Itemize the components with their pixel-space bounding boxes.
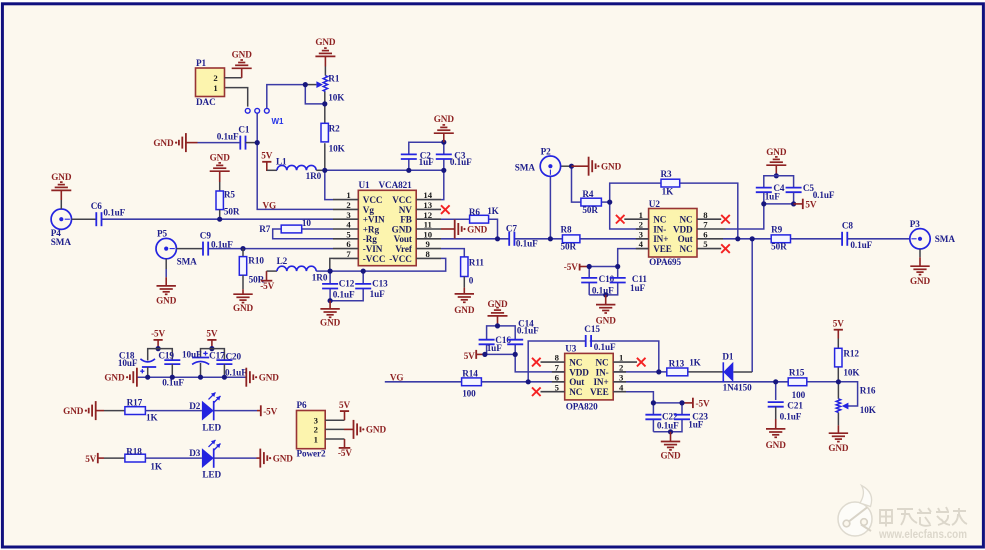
ground below C21 [766,428,785,430]
wire -5V stem to L2 [267,270,278,272]
svg-text:4: 4 [639,239,644,249]
wire C10 top [588,267,590,278]
resistor R13 [667,368,688,376]
svg-text:5: 5 [555,382,560,392]
junction C21 line [773,379,778,384]
svg-text:GND: GND [233,303,254,313]
svg-text:5V: 5V [833,319,844,329]
capacitor C22 [645,414,661,416]
svg-text:R17: R17 [127,398,143,408]
resistor R5 [216,191,223,210]
U1 pin 6 stub [333,248,358,250]
svg-text:VDD: VDD [569,367,589,377]
wire P1 pin1 to W1 left circle [225,88,248,107]
wire C13 bottom loop [330,289,363,301]
svg-text:-5V: -5V [564,262,578,272]
svg-text:GND: GND [828,443,849,453]
wire R7 right to U1 pin4 [302,228,333,230]
svg-text:R12: R12 [843,349,859,359]
junction P2 gnd node [569,164,574,169]
junction R1 bottom [322,101,327,106]
P4 stub [72,218,97,220]
svg-text:L1: L1 [276,157,287,167]
P5 down wire [165,259,167,269]
svg-text:100: 100 [792,390,806,400]
wire C23 bottom loop [653,419,682,432]
svg-text:VEE: VEE [653,244,672,254]
C1 gnd stub [186,142,198,144]
wire R1 bottom to node [324,92,326,104]
resistor R3 [661,179,680,187]
wire U3 pin2 to R13 [613,371,667,373]
svg-text:2: 2 [639,220,643,230]
junction C22 gnd [668,429,673,434]
ground below C12 C13 [329,301,331,309]
U1 pin 5 stub [333,238,358,240]
wire R1 wiper arrow tail [305,84,316,86]
svg-text:0.1uF: 0.1uF [517,326,539,336]
potentiometer R1 [323,76,327,92]
svg-text:1uF: 1uF [765,191,781,201]
ground above C14 C16 [488,315,508,317]
U2 pin1 NC X [624,218,648,220]
ground above R5 [210,170,230,172]
svg-text:-5V: -5V [263,407,277,417]
ground at U1 pin11 [454,220,456,239]
wire out line down to D1 anode [751,239,753,372]
resistor R15 [788,378,807,386]
jumper W1 [245,108,250,113]
junction R14 out node [526,379,531,384]
U3 pin1 NC X [613,361,637,363]
svg-text:C12: C12 [339,279,355,289]
svg-text:GND: GND [232,49,253,59]
svg-text:4: 4 [619,382,624,392]
gnd rail under cluster [137,376,246,378]
svg-text:GND: GND [104,373,125,383]
svg-text:C7: C7 [506,224,518,234]
wire 5V rail L1 junction to C2 C3 bottoms [325,169,444,171]
wire C23 top [681,403,683,415]
svg-text:GND: GND [315,37,336,47]
wire R7 left loop to U1 pin5 [273,229,333,239]
C20 bottom [223,364,225,377]
svg-text:R5: R5 [224,189,236,199]
svg-text:VCC: VCC [363,195,383,205]
junction R6 vout [495,236,500,241]
U1 pin 10 stub [416,238,441,240]
svg-text:R9: R9 [771,225,783,235]
svg-text:SMA: SMA [935,234,956,244]
junction C23 top [679,400,684,405]
wire R1 wiper loop to R2 top node [305,85,325,104]
ground below C10 C11 [605,295,607,305]
C18 C19 top rail [148,349,173,361]
wire U2 pin6 out to R9 [723,238,771,240]
R1 gnd stem [324,56,326,66]
resistor R12 [835,348,842,367]
svg-text:1: 1 [213,83,217,93]
wire U3 pin3 line to R15 [613,381,788,383]
svg-text:P5: P5 [157,228,168,238]
svg-text:-5V: -5V [338,448,352,458]
wire R12 bottom to node [837,367,839,382]
junction R3 out [735,236,740,241]
svg-text:10: 10 [423,229,432,239]
wire R4 to R3 node [601,201,609,203]
junction C11 top [615,264,620,269]
svg-text:P3: P3 [910,219,921,229]
svg-text:10K: 10K [843,367,860,377]
svg-text:VDD: VDD [673,224,693,234]
capacitor C14 [507,339,523,341]
svg-text:R2: R2 [329,124,341,134]
svg-text:-Rg: -Rg [363,234,377,244]
svg-text:SMA: SMA [51,237,72,247]
D2 to -5V wire [214,410,257,412]
svg-text:W1: W1 [272,117,285,126]
junction R12 R16 node [836,379,841,384]
svg-text:U2: U2 [649,199,661,209]
capacitor C12 [322,283,338,285]
power -5V at C18 C19 [154,339,163,341]
junction C3 top gnd [441,140,446,145]
junction out drop [750,236,755,241]
svg-text:GND: GND [51,172,72,182]
power -5V at P6 [344,439,346,448]
wire P2 stub to ground node [561,165,572,167]
capacitor C7 [508,232,510,246]
svg-text:R4: R4 [582,189,594,199]
svg-text:Vref: Vref [395,244,413,254]
U3 pin3 stub [613,381,626,383]
svg-text:0.1uF: 0.1uF [516,239,538,249]
svg-text:1: 1 [314,434,318,444]
svg-text:C19: C19 [158,351,174,361]
svg-text:3: 3 [346,210,351,220]
junction C4 bottom [761,201,766,206]
svg-text:C21: C21 [787,401,803,411]
wire C22 top [652,403,654,415]
svg-text:VG: VG [263,200,277,210]
svg-text:50R: 50R [224,207,240,217]
ground left of rail [136,368,138,387]
P3 down wire [919,249,921,257]
svg-text:5: 5 [703,239,708,249]
watermark chinese glyph strokes [880,507,967,527]
C21 bottom [775,407,777,419]
svg-text:OPA820: OPA820 [566,402,598,412]
svg-text:C1: C1 [238,125,250,135]
svg-text:GND: GND [320,318,341,328]
svg-text:GND: GND [273,453,294,463]
wire node to R2 top [324,104,326,123]
wire U3 pin4 VEE to C22 rail [613,392,653,403]
U1 pin 2 stub [333,208,358,210]
svg-text:+VIN: +VIN [363,215,385,225]
svg-text:0: 0 [469,275,474,285]
svg-text:R15: R15 [789,368,805,378]
svg-text:R8: R8 [561,225,573,235]
C4 gnd stem [775,165,777,176]
ground left of C1 [185,133,187,152]
wire C14 C16 top rail [487,326,516,339]
svg-text:1uF: 1uF [630,283,646,293]
junction C3 bottom [441,168,446,173]
svg-text:C20: C20 [226,351,242,361]
ground right of rail [245,368,247,387]
capacitor C16 [479,339,495,341]
resistor R10 [242,249,244,257]
wire C2 top loop [409,142,444,154]
wire C12 bottom to GND junction [329,289,331,301]
svg-text:50R: 50R [561,241,577,251]
capacitor C17 polarized [192,357,209,359]
LED D3 [202,448,214,468]
capacitor C20 [216,359,232,361]
junction C22 top [651,400,656,405]
P6 pin3 stub [325,419,344,421]
svg-text:-VIN: -VIN [363,244,383,254]
R11 bottom [463,277,465,288]
connector P4 SMA [51,209,71,229]
U1 pin 4 stub [333,228,358,230]
wire C21 tap [775,382,777,400]
potentiometer R16 [836,399,840,413]
svg-text:8: 8 [703,210,708,220]
capacitor C11 [610,277,626,279]
svg-text:5: 5 [346,229,351,239]
svg-text:7: 7 [346,249,351,259]
resistor R8 [562,235,580,243]
svg-text:0.1uF: 0.1uF [450,157,472,167]
wire R16 bottom [837,412,839,425]
wire C22 C23 top rail [653,402,682,404]
wire C12 top [329,271,331,284]
U1 pin 7 stub [333,257,358,259]
U3 pin8 NC X [541,361,565,363]
resistor R6 [470,215,489,223]
svg-text:NC: NC [680,244,693,254]
junction C13 rail [361,269,366,274]
junction C5 bottom [791,201,796,206]
svg-text:IN+: IN+ [593,377,608,387]
wire C11 top [617,267,619,278]
svg-text:5V: 5V [261,151,272,161]
svg-text:NC: NC [653,215,666,225]
U2 pin8 NC X [697,218,721,220]
R17 left wire [96,410,104,412]
wire P2 center down to Vout line [549,176,551,238]
svg-text:GND: GND [454,305,475,315]
resistor R9 [771,235,790,243]
ground below R10 [233,293,252,295]
svg-text:P1: P1 [196,58,207,68]
wire C15 left loop from out node [528,341,586,382]
svg-text:L2: L2 [277,256,288,266]
capacitor C13 [355,283,371,285]
svg-text:14: 14 [423,190,432,200]
capacitor C19 [164,359,180,361]
svg-text:VCA821: VCA821 [379,180,413,190]
ground above C2 C3 [443,133,445,142]
junction L2 rail [328,269,333,274]
capacitor C21 [768,401,784,403]
P5 stub [176,248,203,250]
resistor R11 [461,257,468,277]
U2 pin6 stub [697,238,723,240]
svg-text:3: 3 [619,372,624,382]
wire node up to R3 left [610,183,661,202]
svg-text:1R0: 1R0 [306,171,322,181]
svg-text:-VCC: -VCC [389,254,412,264]
wire R13 to D1 cathode [688,371,723,373]
svg-text:GND: GND [434,114,455,124]
wire C3 top to GND junction [443,142,445,154]
svg-text:11: 11 [424,220,432,230]
ground at P6 [353,420,355,439]
ground above P1 [232,67,252,69]
resistor R2 [321,123,328,142]
junction R5 main line [217,217,222,222]
ground right of P2 [588,157,590,176]
wire R3 right loop down to U2 pin6 line [680,183,738,239]
U1 pin 1 stub [333,199,358,201]
C1 right pin [246,142,258,144]
P6 pin2 stub [325,428,344,430]
wire 5V rail down to U3 pin7 [515,354,565,372]
svg-text:12: 12 [423,210,432,220]
svg-text:10K: 10K [329,143,346,153]
svg-text:2: 2 [314,424,318,434]
wire node to R16 wiper loop [838,382,857,406]
U3 pin6 stub [552,381,565,383]
U2 pin3 stub [636,238,649,240]
capacitor C8 [841,232,843,246]
wire U2 pin4 VEE to -5V rail [618,249,649,267]
svg-text:0.1uF: 0.1uF [333,289,355,299]
ground above P4 [51,189,71,191]
diode D1 1N4150 [722,362,724,382]
wire C11 bottom loop [589,283,618,295]
svg-text:1: 1 [639,210,643,220]
junction C4 top [774,173,779,178]
svg-text:0.1uF: 0.1uF [594,342,616,352]
svg-text:GND: GND [766,147,787,157]
junction C2 bottom [406,168,411,173]
inductor L1 [267,169,277,171]
wire C3 junction down to U1 pin14 [441,170,444,199]
svg-text:GND: GND [487,299,508,309]
svg-text:www.elecfans.com: www.elecfans.com [878,527,967,541]
wire C22 bottom [652,419,654,432]
U3 pin4 stub [613,391,626,393]
wire VG line to R14 [385,381,462,383]
U3 pin5 NC X [541,391,565,393]
svg-text:Out: Out [678,234,694,244]
wire U2 pin7 to C4 junction [726,204,764,229]
svg-text:C9: C9 [200,230,212,240]
connector P5 SMA [156,238,176,258]
svg-text:Vout: Vout [394,234,413,244]
R5 bottom pin [219,210,221,220]
svg-text:1K: 1K [487,206,499,216]
P5 gnd stem [165,277,167,286]
svg-text:1N4150: 1N4150 [723,383,753,393]
wire R16 top [837,382,839,399]
svg-text:R13: R13 [669,359,685,369]
U1 pin11 gnd wire [441,228,455,230]
wire W1 middle jumper to C1 junction [256,113,258,143]
capacitor C5 [786,187,802,189]
wire R2 bottom to 5V rail junction [324,143,326,170]
svg-text:8: 8 [426,249,431,259]
svg-text:10: 10 [302,218,311,228]
wire U1 pin10 Vout line to C7 [441,238,509,240]
resistor R14 [462,378,482,386]
wire C15 right loop to U3 pin2 node [590,341,659,372]
svg-text:0.1uF: 0.1uF [780,411,802,421]
svg-text:VEE: VEE [590,387,609,397]
svg-text:P2: P2 [541,147,552,157]
svg-text:10uF: 10uF [118,358,138,368]
ground right of D3 [259,449,261,468]
U1 pin13 NC X mark [441,205,450,214]
svg-text:VG: VG [390,372,404,382]
svg-text:GND: GND [366,425,387,435]
wire node down to U2 pin2 [610,202,649,229]
svg-text:-5V: -5V [151,329,165,339]
svg-text:GND: GND [156,296,177,306]
R18 to D3 wire [145,457,202,459]
wire C14 C16 bottom rail [487,345,516,355]
inductor L2 [277,266,316,271]
ground above R1 [315,55,335,57]
R16 gnd stem [837,425,839,433]
svg-text:C13: C13 [372,279,388,289]
svg-text:NV: NV [399,205,413,215]
svg-text:0.1uF: 0.1uF [211,239,233,249]
power 5V at C17 C20 [207,339,216,341]
ground below C22 C23 [670,432,672,442]
svg-text:0.1uF: 0.1uF [592,286,614,296]
svg-text:Power2: Power2 [297,449,326,459]
capacitor C1 [239,136,241,150]
U2 pin5 NC X [697,248,721,250]
power 5V at P6 [340,410,349,412]
svg-text:GND: GND [153,138,174,148]
wire U1 pin8 down to -VCC rail [330,258,446,271]
C4 C5 top rail [764,176,794,188]
svg-text:DAC: DAC [196,97,216,107]
power -5V at D2 [260,405,262,416]
U1 pin 13 stub [416,208,441,210]
R18 left wire [104,457,125,459]
P1 pin2 stub [225,77,242,79]
svg-text:SMA: SMA [515,162,536,172]
ground left of R17 [95,401,97,420]
wire R6 right down to Vout line [489,219,498,239]
svg-text:GND: GND [910,276,931,286]
wire R8 right to U2 pin3 [580,238,649,240]
wire D1 anode to U2 out drop [733,371,752,373]
power 5V at L1 [262,161,271,163]
U1 pin 11 stub [416,228,441,230]
svg-text:1K: 1K [146,412,158,422]
C17 C20 top rail [201,349,225,361]
junction C14 bottom [513,352,518,357]
svg-text:GND: GND [766,440,787,450]
